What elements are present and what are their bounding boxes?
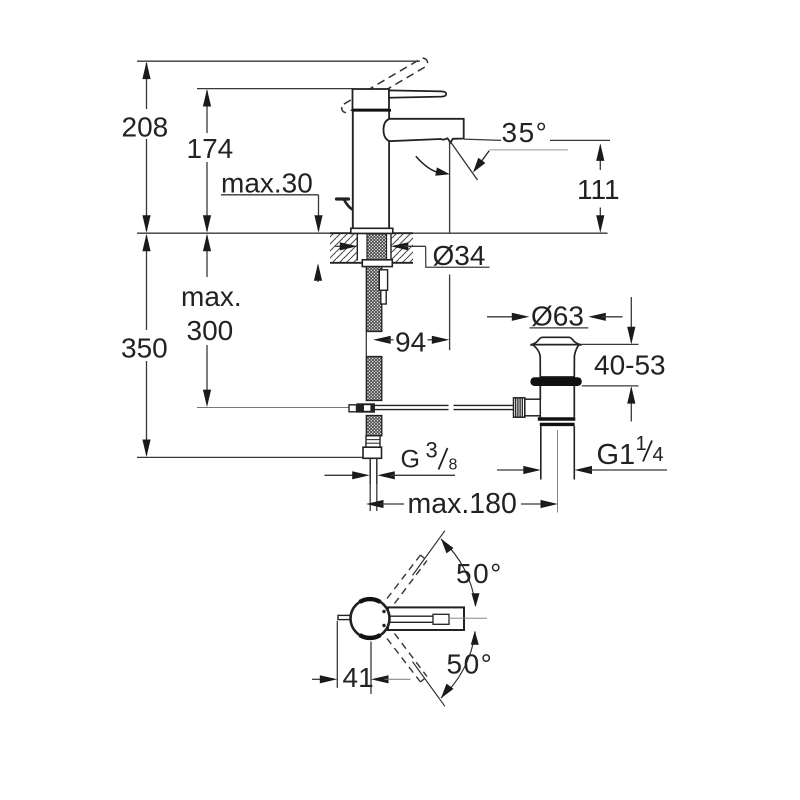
ref line pop-up rod level — [197, 407, 349, 409]
svg-text:1: 1 — [636, 433, 647, 455]
dim max300 arrows — [203, 234, 211, 252]
svg-text:208: 208 — [122, 112, 169, 143]
G3/8 nut — [363, 447, 382, 458]
top view spout — [388, 607, 464, 630]
top view body circle — [351, 599, 390, 638]
pop-up rod joint block — [357, 403, 376, 412]
dim 208 arrows — [142, 62, 150, 80]
svg-text:max.: max. — [181, 281, 242, 312]
projection line spout outlet lower — [449, 275, 451, 351]
threaded shank braid — [367, 234, 387, 260]
svg-text:50°: 50° — [456, 558, 503, 589]
svg-text:35°: 35° — [502, 117, 549, 148]
hose side stub — [379, 270, 387, 291]
dim dia34 leader — [426, 246, 490, 267]
top view dashed swivel upper — [387, 555, 421, 599]
svg-text:G: G — [401, 446, 420, 474]
deck slab hatched left — [330, 233, 357, 262]
svg-text:max.30: max.30 — [221, 168, 313, 199]
dim G1-1/4 left arrow — [497, 469, 527, 471]
drain neck — [534, 346, 579, 378]
faucet base flange — [351, 228, 393, 233]
hose ferrule — [366, 436, 380, 447]
dim 41 ext line left — [336, 621, 338, 688]
mounting nut — [362, 260, 392, 267]
svg-text:94: 94 — [395, 327, 426, 358]
svg-text:350: 350 — [121, 333, 168, 364]
top view swivel ext line upper — [413, 531, 445, 576]
dim dia63 left arrow — [487, 316, 517, 318]
top view pivot dots — [382, 610, 385, 613]
drain flange line — [530, 344, 582, 346]
dim G3/8 left arrow — [325, 474, 357, 476]
dim 94 right arrow — [428, 339, 437, 341]
svg-text:max.180: max.180 — [408, 488, 517, 520]
dim 40-53 ext line bottom — [582, 385, 639, 387]
dim 111 line — [599, 145, 601, 170]
faucet lever handle — [389, 90, 446, 97]
top view chamfer arcs — [360, 599, 381, 602]
faucet pop-up knob — [337, 197, 349, 200]
dim max300 line — [206, 236, 208, 278]
supply pipe — [369, 458, 371, 484]
pop-up rod — [375, 404, 449, 406]
deck slab hatched right — [391, 233, 413, 262]
drain seal ring — [530, 377, 581, 386]
top view centerline — [448, 617, 487, 619]
top view dashed swivel lower — [387, 639, 421, 683]
dim 35deg angle arrow — [479, 151, 490, 166]
dim G1-1/4 right arrow — [575, 466, 593, 474]
drain side port — [525, 399, 541, 416]
dim 208 line — [146, 63, 148, 109]
dim max30 underline — [221, 194, 319, 196]
pop-up rod left nub — [349, 405, 357, 412]
dim 50deg upper arc — [441, 539, 476, 606]
drain bottom ring — [538, 417, 576, 420]
svg-text:111: 111 — [577, 174, 620, 205]
flex hose braid lower — [366, 416, 382, 436]
dim 40-53 line upper — [630, 297, 632, 343]
projection line spout outlet upper — [449, 142, 451, 232]
dim 35deg leader right — [550, 139, 610, 141]
faucet spout — [384, 119, 464, 143]
dim max30 upper line+arrow — [318, 195, 320, 231]
dim 35deg thin line — [490, 149, 569, 151]
svg-text:174: 174 — [187, 133, 234, 164]
dim 40-53 line lower — [630, 388, 632, 422]
dim 41 ext line right — [370, 642, 372, 695]
svg-text:40-53: 40-53 — [594, 350, 666, 381]
dim max30 lower line+arrow — [317, 266, 319, 283]
dim G3/8 right arrow — [377, 471, 395, 479]
faucet dashed lever raised position — [340, 57, 429, 115]
drain body below seal — [540, 386, 574, 417]
svg-text:G1: G1 — [597, 439, 636, 471]
drain tailpipe — [540, 426, 542, 479]
top view swivel ext line lower — [413, 662, 445, 707]
svg-text:8: 8 — [449, 456, 458, 473]
top view pop-up rod stub — [338, 615, 351, 619]
dim 350 arrows — [142, 234, 150, 252]
dim max180 right arrow — [521, 503, 545, 505]
top view spout slot — [390, 615, 433, 617]
dim 174 arrows — [203, 89, 211, 107]
ref line hose end — [137, 456, 363, 458]
deck reference line — [137, 232, 608, 234]
drain plug dome — [531, 337, 581, 345]
svg-text:300: 300 — [187, 315, 234, 346]
svg-text:50°: 50° — [447, 649, 494, 680]
ref line handle max height — [137, 60, 420, 62]
dim G3/8 ext pipe lines — [369, 484, 371, 511]
dim 35deg leader left — [464, 139, 501, 140]
dim dia34 right arrow — [391, 242, 409, 250]
deck hole left edge — [356, 233, 358, 260]
deck hole right edge — [390, 233, 392, 260]
dim 50deg lower arc — [441, 632, 475, 699]
dim 41 right arrow — [371, 675, 389, 683]
deck top edge — [330, 232, 413, 234]
svg-text:41: 41 — [343, 662, 374, 693]
dim dia63 right arrow — [588, 313, 606, 321]
hose left edge through gap — [365, 332, 367, 357]
dim 94 left arrow — [373, 336, 391, 344]
dim 174 line — [206, 91, 208, 134]
drain knurled knob — [514, 398, 525, 417]
flow direction arc arrow — [416, 156, 439, 172]
svg-text:4: 4 — [653, 444, 664, 466]
dim dia34 left arrow — [335, 245, 345, 247]
dim 41 left arrow — [312, 678, 324, 680]
dim 350 line — [146, 236, 148, 331]
flex hose braid middle — [366, 357, 382, 401]
dim dia63 underline — [530, 327, 589, 329]
svg-text:Ø63: Ø63 — [531, 300, 584, 331]
faucet cartridge box — [353, 89, 390, 110]
dim 111 arrows — [596, 143, 604, 161]
dim 35deg spray line — [451, 142, 478, 180]
deck bottom edge — [330, 262, 413, 264]
faucet body — [353, 110, 389, 229]
svg-text:3: 3 — [426, 438, 438, 463]
flex hose braid upper — [366, 267, 382, 332]
ref line handle top — [197, 88, 353, 90]
dim max180 left arrow — [366, 500, 384, 508]
dim 40-53 ext line top — [582, 343, 639, 345]
drain centerline — [557, 430, 559, 513]
svg-text:Ø34: Ø34 — [433, 240, 486, 271]
